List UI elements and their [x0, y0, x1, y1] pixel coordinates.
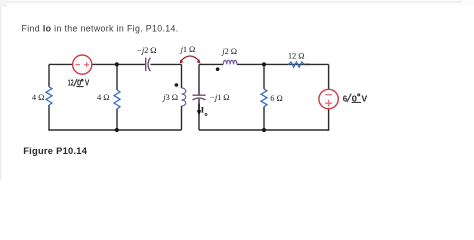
- svg-text:o: o: [205, 111, 208, 118]
- svg-text:12: 12: [68, 79, 74, 88]
- svg-text:j2 Ω: j2 Ω: [221, 46, 237, 56]
- svg-text:−j1 Ω: −j1 Ω: [209, 92, 229, 102]
- svg-text:0: 0: [352, 93, 358, 103]
- svg-text:V: V: [85, 79, 90, 88]
- svg-text:j1 Ω: j1 Ω: [180, 44, 196, 54]
- svg-text:4 Ω: 4 Ω: [97, 92, 109, 102]
- svg-text:6 Ω: 6 Ω: [270, 93, 282, 103]
- svg-text:Figure P10.14: Figure P10.14: [23, 146, 88, 156]
- svg-text:4 Ω: 4 Ω: [32, 92, 44, 102]
- svg-text:j3 Ω: j3 Ω: [162, 92, 178, 102]
- svg-text:−j2 Ω: −j2 Ω: [136, 45, 156, 55]
- svg-text:12 Ω: 12 Ω: [288, 50, 305, 60]
- svg-text:Find Io in the network in Fig.: Find Io in the network in Fig. P10.14.: [22, 24, 179, 34]
- svg-text:V: V: [361, 93, 367, 103]
